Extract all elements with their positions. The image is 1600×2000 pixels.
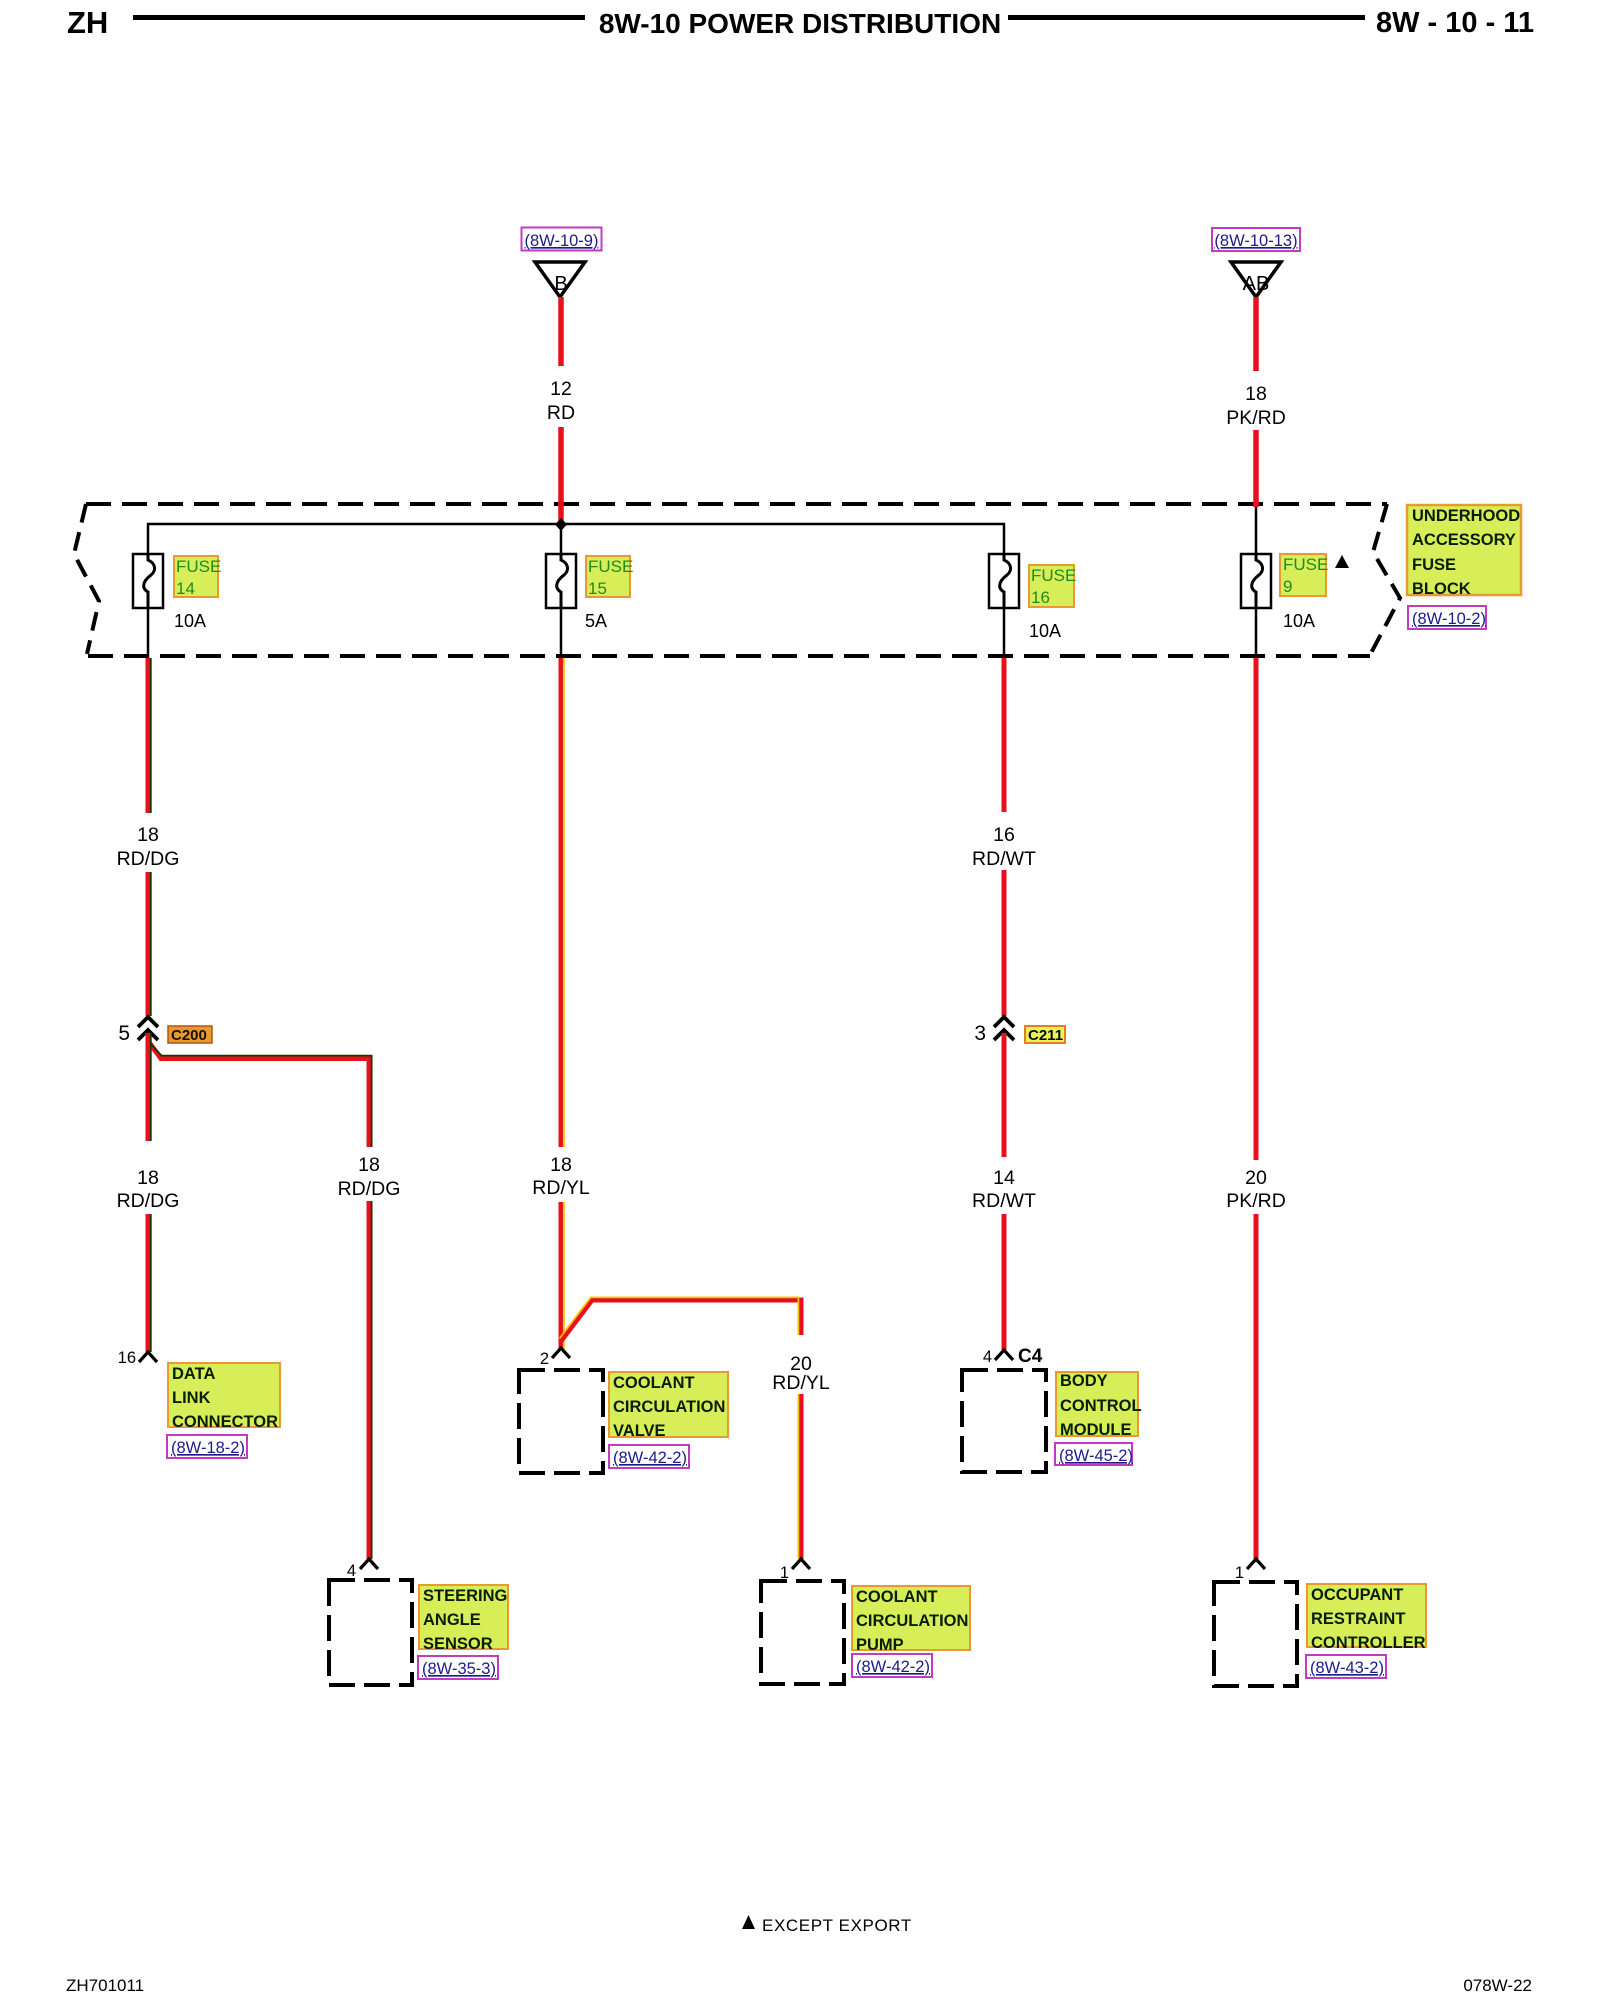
wire 18 RD/DG to data link connector — [117, 1033, 180, 1352]
underhood accessory fuse block outline — [74, 504, 1400, 656]
svg-text:BLOCK: BLOCK — [1412, 580, 1471, 598]
fuse F15 — [546, 554, 576, 608]
svg-text:16: 16 — [1031, 588, 1050, 607]
svg-text:PK/RD: PK/RD — [1226, 1190, 1286, 1212]
svg-text:RD/DG: RD/DG — [117, 848, 180, 870]
steering angle sensor box — [329, 1580, 412, 1685]
svg-text:16: 16 — [118, 1349, 136, 1367]
svg-text:18: 18 — [550, 1154, 572, 1176]
fuse F14 lead — [147, 608, 150, 658]
reference label (8W-18-2) — [167, 1435, 247, 1458]
svg-text:COOLANT: COOLANT — [856, 1588, 938, 1606]
svg-text:(8W-10-13): (8W-10-13) — [1214, 232, 1297, 250]
coolant circulation valve box — [519, 1370, 603, 1473]
svg-text:AB: AB — [1243, 273, 1270, 295]
svg-text:FUSE: FUSE — [176, 557, 221, 576]
svg-text:(8W-10-9): (8W-10-9) — [525, 232, 599, 250]
reference label (8W-10-9) — [522, 228, 602, 251]
page number 8W - 10 - 11 — [1376, 7, 1532, 40]
footer drawing number — [1432, 1976, 1532, 1996]
coolant circulation pump box — [761, 1581, 844, 1684]
connector C211 label — [1025, 1026, 1065, 1044]
svg-text:COOLANT: COOLANT — [613, 1374, 695, 1392]
fuse F14 label — [174, 556, 221, 598]
node pin 16 data link connector — [118, 1349, 157, 1367]
fuse F9 — [1241, 554, 1271, 608]
node pin 4 steering angle sensor — [347, 1559, 378, 1580]
connector C211 pin 3 — [994, 1017, 1014, 1040]
svg-text:UNDERHOOD: UNDERHOOD — [1412, 507, 1520, 525]
svg-text:2: 2 — [540, 1350, 549, 1368]
svg-text:CIRCULATION: CIRCULATION — [613, 1398, 725, 1416]
svg-text:CONTROLLER: CONTROLLER — [1311, 1634, 1426, 1652]
svg-text:RD/YL: RD/YL — [532, 1177, 590, 1199]
svg-text:CONNECTOR: CONNECTOR — [172, 1413, 278, 1431]
reference label (8W-35-3) — [418, 1656, 498, 1679]
wire 18 RD/DG upper segment — [117, 658, 180, 1016]
svg-text:14: 14 — [176, 579, 195, 598]
connector triangle B — [535, 262, 585, 297]
svg-text:FUSE: FUSE — [1412, 556, 1456, 574]
svg-text:18: 18 — [137, 1167, 159, 1189]
svg-text:RD/WT: RD/WT — [972, 848, 1036, 870]
svg-text:CIRCULATION: CIRCULATION — [856, 1612, 968, 1630]
svg-text:EXCEPT EXPORT: EXCEPT EXPORT — [762, 1916, 912, 1935]
svg-text:(8W-43-2): (8W-43-2) — [1310, 1659, 1384, 1677]
svg-text:5: 5 — [118, 1022, 130, 1045]
bus wire — [148, 524, 1004, 556]
svg-text:18: 18 — [1245, 383, 1267, 405]
reference label (8W-42-2) valve — [609, 1445, 689, 1468]
data link connector label — [168, 1363, 280, 1431]
body control module box — [962, 1370, 1046, 1472]
svg-text:(8W-45-2): (8W-45-2) — [1059, 1447, 1133, 1465]
svg-text:BODY: BODY — [1060, 1372, 1108, 1390]
wire 20 PK/RD — [1226, 658, 1286, 1559]
svg-text:(8W-42-2): (8W-42-2) — [613, 1449, 687, 1467]
svg-text:(8W-42-2): (8W-42-2) — [856, 1658, 930, 1676]
node pin 1 coolant circulation pump — [780, 1559, 810, 1582]
svg-text:ACCESSORY: ACCESSORY — [1412, 531, 1516, 549]
steering angle sensor label — [419, 1585, 508, 1653]
svg-text:PUMP: PUMP — [856, 1636, 904, 1654]
svg-text:RD: RD — [547, 402, 575, 424]
wire 18 PK/RD — [1226, 297, 1286, 507]
svg-text:FUSE: FUSE — [588, 557, 633, 576]
svg-text:1: 1 — [1235, 1564, 1244, 1582]
svg-text:ANGLE: ANGLE — [423, 1611, 481, 1629]
node pin 2 coolant circulation valve — [540, 1348, 570, 1368]
coolant circulation valve label — [609, 1372, 728, 1440]
reference label (8W-10-2) — [1408, 606, 1486, 629]
svg-text:STEERING: STEERING — [423, 1587, 507, 1605]
svg-text:C211: C211 — [1028, 1027, 1063, 1044]
svg-text:RD/DG: RD/DG — [117, 1190, 180, 1212]
fuse F9 label — [1280, 554, 1328, 596]
svg-text:10A: 10A — [174, 611, 206, 631]
svg-text:RD/WT: RD/WT — [972, 1190, 1036, 1212]
connector C200 label — [168, 1026, 212, 1044]
svg-text:18: 18 — [137, 824, 159, 846]
fuse F16 lead — [1003, 608, 1006, 658]
node pin 4 C4 body control module — [983, 1346, 1043, 1367]
svg-text:FUSE: FUSE — [1031, 566, 1076, 585]
svg-text:4: 4 — [347, 1562, 356, 1580]
svg-text:C200: C200 — [171, 1027, 207, 1044]
wire 18 RD/DG branch to steering angle sensor — [147, 1040, 401, 1560]
svg-text:FUSE: FUSE — [1283, 555, 1328, 574]
svg-text:RD/DG: RD/DG — [338, 1178, 401, 1200]
fuse F9 lead top — [1255, 505, 1258, 556]
svg-text:(8W-10-2): (8W-10-2) — [1412, 610, 1486, 628]
coolant circulation pump label — [852, 1586, 970, 1654]
node pin 1 occupant restraint controller — [1235, 1559, 1265, 1582]
connector triangle AB — [1231, 262, 1281, 297]
footer sheet code — [66, 1976, 144, 1996]
svg-text:3: 3 — [974, 1022, 986, 1045]
connector C200 pin 5 — [138, 1017, 158, 1040]
svg-text:PK/RD: PK/RD — [1226, 407, 1286, 429]
svg-text:SENSOR: SENSOR — [423, 1635, 493, 1653]
reference label (8W-45-2) — [1055, 1443, 1133, 1465]
svg-text:OCCUPANT: OCCUPANT — [1311, 1586, 1403, 1604]
wire 12 RD — [547, 297, 575, 524]
header rule left — [133, 15, 585, 20]
reference label (8W-43-2) — [1306, 1655, 1386, 1678]
occupant restraint controller label — [1307, 1584, 1426, 1652]
svg-text:C4: C4 — [1018, 1346, 1043, 1367]
svg-text:12: 12 — [550, 378, 572, 400]
fuse F14 — [133, 554, 163, 608]
svg-text:B: B — [554, 273, 567, 295]
note except export — [742, 1915, 912, 1935]
svg-text:(8W-35-3): (8W-35-3) — [422, 1660, 496, 1678]
svg-text:16: 16 — [993, 824, 1015, 846]
svg-text:4: 4 — [983, 1348, 992, 1366]
wire 18 RD/YL — [532, 658, 590, 1349]
svg-text:RD/YL: RD/YL — [772, 1372, 830, 1394]
header rule right — [1008, 15, 1365, 20]
svg-text:10A: 10A — [1283, 611, 1315, 631]
svg-text:14: 14 — [993, 1167, 1015, 1189]
fuse F16 label — [1029, 565, 1076, 607]
fuse F9 lead bottom — [1255, 608, 1258, 658]
wire 16 RD/WT — [972, 658, 1036, 1016]
svg-text:VALVE: VALVE — [613, 1422, 666, 1440]
svg-text:LINK: LINK — [172, 1389, 211, 1407]
page title — [598, 8, 1002, 40]
svg-text:MODULE: MODULE — [1060, 1421, 1132, 1439]
reference label (8W-10-13) — [1212, 228, 1300, 251]
svg-text:5A: 5A — [585, 611, 607, 631]
svg-text:DATA: DATA — [172, 1365, 215, 1383]
wire 14 RD/WT — [972, 1033, 1036, 1350]
node junction at bus — [555, 518, 567, 531]
wire 20 RD/YL branch to pump — [560, 1297, 830, 1559]
svg-text:9: 9 — [1283, 577, 1292, 596]
page code ZH — [67, 5, 108, 41]
svg-text:(8W-18-2): (8W-18-2) — [171, 1439, 245, 1457]
body control module label — [1056, 1372, 1142, 1439]
svg-text:RESTRAINT: RESTRAINT — [1311, 1610, 1405, 1628]
svg-text:15: 15 — [588, 579, 607, 598]
svg-text:20: 20 — [1245, 1167, 1267, 1189]
fuse F16 — [989, 554, 1019, 608]
underhood accessory fuse block label — [1407, 505, 1521, 598]
svg-text:10A: 10A — [1029, 621, 1061, 641]
occupant restraint controller box — [1214, 1582, 1297, 1686]
reference label (8W-42-2) pump — [852, 1654, 932, 1677]
fuse F15 lead — [560, 608, 563, 658]
fuse F9 export marker — [1335, 555, 1349, 568]
svg-text:18: 18 — [358, 1154, 380, 1176]
svg-text:CONTROL: CONTROL — [1060, 1397, 1142, 1415]
fuse F15 label — [586, 556, 633, 598]
